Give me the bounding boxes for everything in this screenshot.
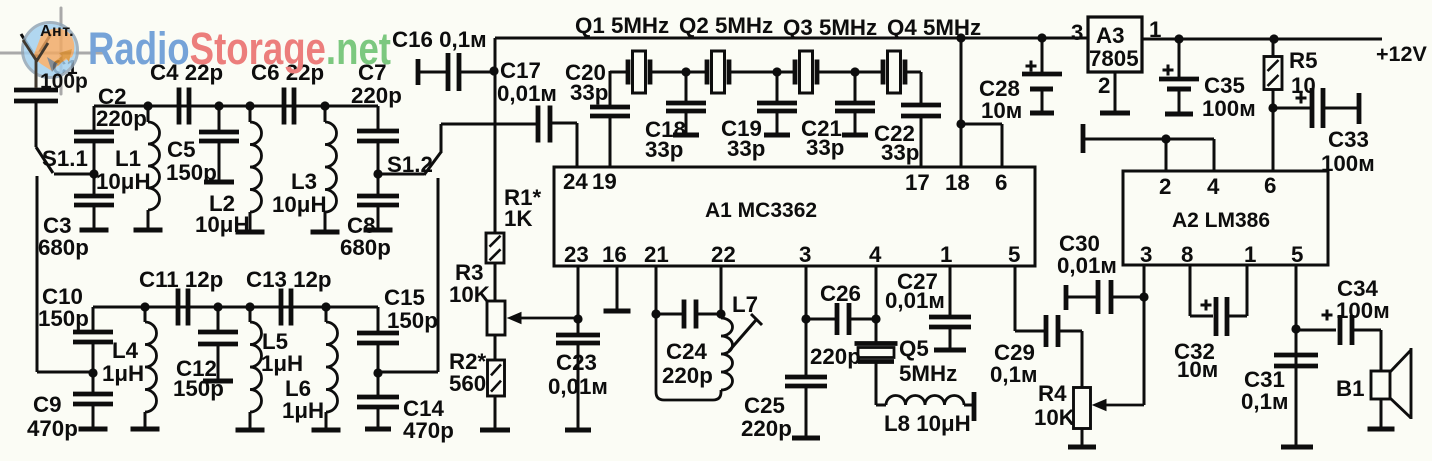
svg-text:33p: 33p [570, 80, 608, 105]
svg-text:Q5: Q5 [899, 336, 929, 361]
svg-text:2: 2 [1159, 174, 1171, 199]
svg-text:560: 560 [449, 371, 486, 396]
svg-text:S1.1: S1.1 [42, 146, 88, 171]
svg-text:R5: R5 [1289, 48, 1318, 73]
svg-text:C13 12p: C13 12p [246, 267, 332, 292]
svg-text:L7: L7 [732, 292, 758, 317]
svg-text:S1.2: S1.2 [387, 152, 433, 177]
svg-text:1: 1 [1244, 242, 1256, 267]
svg-text:150p: 150p [173, 376, 224, 401]
svg-text:1μH: 1μH [282, 398, 324, 423]
svg-text:5: 5 [1291, 242, 1303, 267]
svg-text:220p: 220p [351, 83, 402, 108]
svg-text:10K: 10K [1034, 405, 1075, 430]
svg-text:B1: B1 [1336, 376, 1365, 401]
svg-text:21: 21 [644, 242, 669, 267]
svg-text:24: 24 [563, 169, 588, 194]
svg-text:5: 5 [1008, 242, 1020, 267]
svg-text:470p: 470p [27, 416, 78, 441]
svg-text:C26: C26 [820, 281, 861, 306]
svg-text:0,01м: 0,01м [885, 288, 945, 313]
svg-text:33p: 33p [881, 140, 919, 165]
svg-text:16: 16 [602, 242, 627, 267]
svg-text:C35: C35 [1204, 73, 1245, 98]
svg-text:10μH: 10μH [96, 169, 151, 194]
svg-text:220p: 220p [810, 344, 861, 369]
svg-text:17: 17 [905, 170, 930, 195]
svg-text:3: 3 [799, 242, 811, 267]
svg-text:6: 6 [995, 170, 1007, 195]
svg-text:0,01м: 0,01м [497, 81, 557, 106]
svg-text:Q2 5MHz: Q2 5MHz [679, 13, 773, 38]
svg-text:0,01м: 0,01м [548, 374, 608, 399]
svg-text:5MHz: 5MHz [899, 361, 957, 386]
svg-text:8: 8 [1181, 242, 1193, 267]
svg-text:100м: 100м [1202, 96, 1256, 121]
svg-text:+12V: +12V [1376, 42, 1427, 66]
svg-text:220p: 220p [741, 416, 792, 441]
svg-text:C5: C5 [167, 137, 196, 162]
svg-text:150p: 150p [387, 308, 438, 333]
svg-text:150p: 150p [166, 160, 217, 185]
svg-text:10μH: 10μH [272, 192, 327, 217]
svg-text:4: 4 [1207, 174, 1220, 199]
svg-text:C15: C15 [384, 285, 425, 310]
svg-text:23: 23 [564, 242, 589, 267]
svg-text:18: 18 [945, 170, 970, 195]
svg-text:19: 19 [592, 169, 617, 194]
svg-text:C25: C25 [744, 393, 785, 418]
svg-text:0,1м: 0,1м [1241, 389, 1289, 414]
svg-text:C33: C33 [1328, 127, 1369, 152]
svg-text:Q3 5MHz: Q3 5MHz [783, 15, 877, 40]
svg-text:10м: 10м [981, 98, 1022, 123]
svg-text:C9: C9 [33, 392, 62, 417]
svg-text:1μH: 1μH [261, 351, 303, 376]
svg-text:L1: L1 [115, 146, 141, 171]
svg-text:680p: 680p [38, 235, 89, 260]
svg-text:1μH: 1μH [102, 361, 144, 386]
svg-text:7805: 7805 [1089, 46, 1139, 71]
svg-text:L8 10μH: L8 10μH [884, 411, 971, 436]
svg-text:33p: 33p [806, 135, 844, 160]
svg-text:10м: 10м [1177, 357, 1218, 382]
svg-text:33p: 33p [727, 136, 765, 161]
svg-text:R4: R4 [1038, 381, 1067, 406]
svg-text:3: 3 [1140, 242, 1152, 267]
svg-text:RadioStorage.net: RadioStorage.net [88, 23, 391, 74]
svg-text:C16 0,1м: C16 0,1м [392, 27, 487, 52]
svg-text:L4: L4 [112, 338, 139, 363]
svg-text:6: 6 [1264, 173, 1276, 198]
svg-text:0,1м: 0,1м [990, 362, 1038, 387]
svg-text:Q4 5MHz: Q4 5MHz [887, 15, 981, 40]
svg-text:100p: 100p [40, 70, 88, 93]
svg-text:C24: C24 [666, 339, 708, 364]
svg-text:33p: 33p [645, 137, 683, 162]
svg-text:470p: 470p [403, 418, 454, 443]
svg-text:100м: 100м [1336, 298, 1390, 323]
svg-text:Q1 5MHz: Q1 5MHz [575, 13, 669, 38]
svg-text:Ант.: Ант. [40, 23, 74, 40]
svg-text:L3: L3 [291, 169, 317, 194]
svg-text:A3: A3 [1096, 23, 1125, 48]
svg-text:220p: 220p [96, 106, 147, 131]
svg-text:10K: 10K [449, 282, 490, 307]
svg-text:A1 MC3362: A1 MC3362 [705, 199, 817, 222]
svg-text:22: 22 [711, 242, 736, 267]
svg-text:150p: 150p [38, 306, 89, 331]
svg-text:0,01м: 0,01м [1057, 253, 1117, 278]
svg-text:C17: C17 [500, 58, 541, 83]
svg-text:1K: 1K [504, 206, 533, 231]
svg-text:4: 4 [869, 242, 882, 267]
svg-text:1: 1 [940, 242, 952, 267]
svg-text:A2 LM386: A2 LM386 [1172, 209, 1270, 232]
svg-text:10μH: 10μH [195, 212, 250, 237]
svg-text:2: 2 [1098, 73, 1110, 98]
svg-text:C11 12p: C11 12p [139, 267, 223, 292]
svg-text:C23: C23 [556, 350, 597, 375]
svg-text:680p: 680p [340, 235, 391, 260]
svg-text:3: 3 [1071, 20, 1083, 45]
svg-text:220p: 220p [662, 363, 713, 388]
